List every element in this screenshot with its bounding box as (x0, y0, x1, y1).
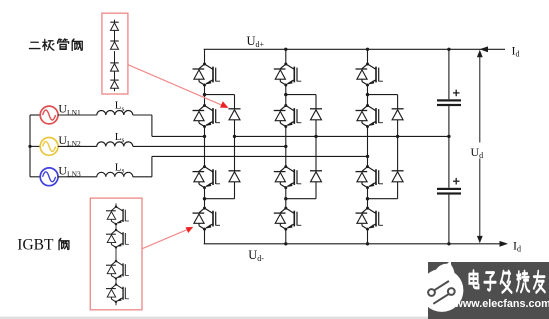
svg-text:IGBT: IGBT (17, 237, 54, 254)
svg-text:U: U (248, 248, 257, 262)
svg-text:d-: d- (257, 254, 264, 263)
svg-text:d: d (517, 245, 521, 254)
svg-text:d+: d+ (256, 40, 265, 49)
svg-text:LN2: LN2 (67, 139, 81, 148)
svg-text:U: U (247, 34, 256, 48)
svg-text:d: d (515, 50, 519, 59)
svg-text:www.elecfans.com: www.elecfans.com (454, 298, 549, 310)
svg-text:d: d (479, 151, 483, 160)
svg-text:s: s (122, 135, 125, 144)
svg-text:LN3: LN3 (67, 170, 81, 179)
svg-text:s: s (122, 104, 125, 113)
svg-text:s: s (122, 166, 125, 175)
svg-text:LN1: LN1 (67, 108, 81, 117)
